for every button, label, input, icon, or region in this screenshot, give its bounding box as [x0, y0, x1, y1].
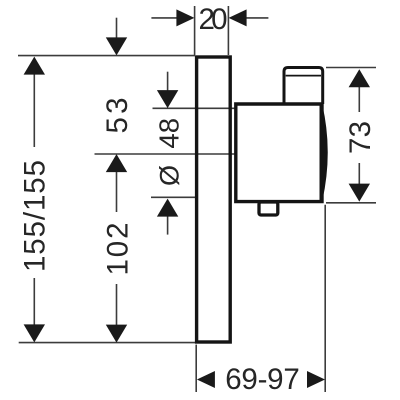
- svg-text:20: 20: [199, 3, 228, 36]
- svg-text:102: 102: [101, 223, 134, 276]
- svg-text:69-97: 69-97: [225, 363, 300, 396]
- svg-text:73: 73: [344, 121, 377, 154]
- svg-text:155/155: 155/155: [19, 160, 52, 272]
- svg-text:Ø 48: Ø 48: [152, 118, 185, 186]
